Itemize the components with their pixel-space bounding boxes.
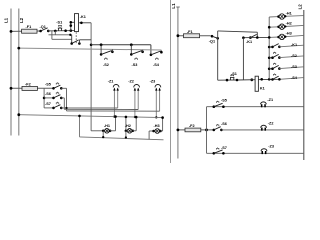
socket outlet Z3 (right page)	[261, 149, 267, 154]
actuator mark S4	[156, 57, 158, 60]
node on L1 at main row	[10, 30, 13, 33]
actuator mark S2	[105, 57, 107, 60]
wire: H3 return up to lamp return row	[161, 116, 164, 131]
wire: H1 return up	[110, 115, 117, 131]
svg-text:-K1: -K1	[80, 15, 86, 19]
holding contact K1 (right page)	[242, 34, 257, 39]
svg-text:-F2: -F2	[25, 83, 31, 87]
svg-text:-S2: -S2	[291, 54, 297, 58]
switch S3	[130, 45, 144, 56]
svg-text:-Q1: -Q1	[209, 40, 215, 44]
svg-text:-H1: -H1	[104, 124, 110, 128]
node S5 vertical joins	[65, 107, 67, 109]
svg-text:-Z1: -Z1	[267, 98, 273, 102]
node on L1 main row	[177, 34, 180, 37]
node branch point	[205, 129, 208, 132]
page divider	[170, 0, 172, 163]
node bus bottom	[268, 78, 271, 81]
node at feeder corner	[250, 78, 253, 81]
wire: H3 row continues from contact to bus	[250, 36, 269, 38]
node at branch corner	[69, 34, 71, 36]
contactor coil K1 (right page)	[255, 76, 258, 91]
switch Q1 (right page)	[211, 35, 219, 40]
wire: corner to lamp H1 left pin	[91, 130, 103, 132]
svg-text:-S5: -S5	[45, 82, 51, 86]
lamp row H3 (right page)	[268, 34, 304, 39]
node at x 65.6	[64, 29, 67, 32]
switch Q1 (left page)	[39, 28, 49, 33]
svg-text:-H3: -H3	[154, 124, 160, 128]
svg-text:-F1: -F1	[26, 25, 32, 29]
svg-text:-Z3: -Z3	[268, 144, 274, 148]
pushbutton S6 (right page)	[213, 124, 223, 131]
svg-text:-Z2: -Z2	[128, 79, 134, 83]
svg-text:-S1: -S1	[56, 20, 62, 24]
wire: Q1 up and across	[218, 31, 258, 80]
wire: gray bus from L2 (y 49.2)	[19, 48, 162, 50]
tick at L1 top	[176, 6, 180, 8]
node at x 70.8	[70, 29, 73, 32]
wire: S7 row	[44, 107, 53, 109]
wire: S6 row to L2	[221, 129, 303, 131]
wire: S6 out corner	[61, 98, 64, 109]
stub left of coil with nodes	[70, 21, 75, 31]
wire: coil feeder row y 79.3	[218, 79, 227, 81]
wire: bundle line 2 (S6 to Z2)	[64, 108, 138, 110]
wire: main row from Q1 to K1 coil	[48, 30, 75, 32]
supply line L1 (left page)	[10, 9, 12, 136]
actuator mark S3	[135, 57, 137, 60]
fuse F2 (left page)	[22, 86, 37, 90]
lamp row H2 (right page)	[268, 24, 304, 29]
svg-text:-Z2: -Z2	[268, 121, 274, 125]
wire: switched feeder row (y 44.8)	[91, 44, 151, 46]
node on L2 at bus	[17, 47, 20, 50]
svg-text:-H3: -H3	[286, 32, 292, 36]
node at x 55.3	[54, 30, 57, 33]
node on L1 at F2 row	[10, 87, 13, 90]
wire: main row from L1 to Q1	[11, 30, 41, 32]
svg-text:-Q1: -Q1	[40, 25, 46, 29]
contact row K1 (right page)	[268, 44, 304, 49]
svg-text:-K1: -K1	[291, 43, 297, 47]
svg-text:L2: L2	[19, 17, 24, 23]
switch S2	[100, 45, 114, 56]
wire: main row F1 (right page)	[178, 35, 211, 37]
contact row S3 (right page)	[268, 63, 304, 70]
wire: parallel branch upper (y 34.8)	[49, 31, 72, 35]
node at Q1 vertical junction	[256, 36, 259, 39]
svg-text:K1: K1	[260, 86, 265, 90]
svg-text:-S3: -S3	[132, 63, 138, 67]
wire: parallel branch lower (y 39.3)	[52, 31, 72, 39]
svg-text:-H2: -H2	[125, 124, 131, 128]
wire: bundle line 1 (S7 to Z3)	[61, 107, 117, 109]
svg-text:-S4: -S4	[153, 63, 160, 67]
wire: S5 out corner	[61, 88, 66, 111]
svg-text:L2: L2	[297, 4, 302, 10]
pushbutton S6	[52, 92, 62, 99]
wire: S5 row (right page)	[207, 106, 304, 108]
socket outlet Z1 (right page)	[261, 102, 267, 107]
pushbutton S5	[52, 82, 62, 89]
svg-text:-S5: -S5	[221, 99, 227, 103]
wire: bus corner down at S4 right contact	[160, 50, 162, 52]
lamp H3 (left page)	[152, 129, 162, 134]
svg-text:-S1: -S1	[231, 72, 237, 76]
wire: branch vertical S5/S7	[206, 107, 208, 154]
svg-text:-S6: -S6	[45, 92, 51, 96]
wire: neutral row from L2	[19, 115, 164, 118]
svg-text:-S4: -S4	[291, 76, 298, 80]
supply line L1 (right page)	[177, 7, 179, 159]
wire: S7 row (right page)	[207, 152, 304, 154]
node on L1 at F2 row	[177, 129, 180, 132]
aux contact K1	[70, 40, 80, 45]
wire: S6 row	[44, 97, 53, 99]
svg-text:-S6: -S6	[221, 122, 227, 126]
node on L2 at neutral row	[17, 113, 20, 116]
wire: feeder corner down to S4	[150, 45, 152, 55]
socket outlet Z2 (right page)	[261, 125, 267, 130]
svg-text:-S2: -S2	[103, 63, 109, 67]
fuse F2 (right page)	[185, 128, 201, 132]
wire: down to K1 aux contact	[71, 35, 73, 44]
node bottom corner	[78, 115, 81, 118]
socket outlet Z2 (left page)	[134, 85, 140, 119]
wire: H2 return up	[133, 116, 138, 131]
wire: aux contact output to vertical	[79, 39, 91, 41]
svg-text:-F2: -F2	[189, 124, 195, 128]
svg-text:-S3: -S3	[291, 65, 297, 69]
pushbutton S7 (right page)	[213, 147, 225, 154]
contact row S4 (right page, on feeder)	[271, 73, 281, 80]
wire: coil output to the right	[79, 22, 92, 24]
svg-text:L1: L1	[4, 17, 9, 23]
node right of coil	[260, 78, 263, 81]
svg-text:L1: L1	[171, 3, 176, 9]
socket outlet Z1 (left page)	[113, 85, 119, 118]
bus vertical (right page)	[268, 17, 270, 79]
wire: left corner vertical for bottom row	[79, 116, 81, 137]
lamp H2 (left page)	[125, 129, 135, 139]
svg-text:-F1: -F1	[187, 30, 193, 34]
svg-text:-S7: -S7	[221, 146, 227, 150]
lamp H1 (left page)	[102, 129, 112, 139]
node feeder S2 tap	[100, 43, 103, 46]
wire: branch vertical to S6/S7	[43, 88, 45, 108]
pushbutton S1 bridge contact	[58, 25, 62, 31]
svg-text:-H2: -H2	[286, 22, 292, 26]
svg-text:-K1: -K1	[246, 40, 252, 44]
svg-text:-S7: -S7	[45, 102, 51, 106]
pushbutton S5 (right page)	[213, 101, 225, 108]
svg-text:-H1: -H1	[286, 11, 292, 15]
wire: F2 row (right page)	[178, 129, 214, 131]
wire: H2 feed from neutral row	[125, 116, 128, 131]
contact row S2 (right page)	[268, 52, 304, 59]
wire: bottom row	[80, 137, 164, 140]
node branch at S6	[43, 97, 46, 100]
fuse F1 (left page)	[22, 29, 37, 33]
switch S4	[150, 51, 163, 56]
pushbutton S7	[52, 102, 62, 109]
wire: H3 feed from bottom row	[149, 131, 154, 139]
supply line L2 (left page)	[18, 9, 20, 136]
supply line L2 (right page)	[303, 10, 305, 160]
node feeder start	[90, 44, 93, 47]
node right of coil	[80, 22, 83, 25]
svg-text:-Z1: -Z1	[108, 79, 114, 83]
node feeder S3 tap	[130, 43, 133, 46]
fuse F1 (right page)	[184, 34, 200, 38]
svg-text:-Z3: -Z3	[150, 79, 156, 83]
fuse row F2 wire	[11, 87, 54, 89]
wire: long vertical from coil output down to lamp H1	[90, 23, 92, 131]
contactor coil K1 (left page)	[75, 14, 79, 32]
mechanical link dashed from coil to aux contact	[75, 32, 77, 43]
wire: bundle line 3 (S5 to Z1)	[67, 110, 160, 112]
wire: vertical down to coil row	[242, 38, 244, 80]
lamp row H1 (right page)	[269, 14, 304, 19]
socket outlet Z3 (left page)	[155, 85, 161, 119]
pushbutton S1 (right page)	[226, 75, 239, 81]
